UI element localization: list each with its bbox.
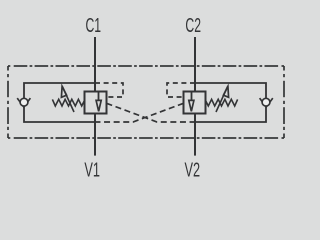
pilot loop (right, dashed)	[167, 83, 195, 97]
manifold boundary (dash-dot border)	[8, 66, 284, 138]
poppet arrow (right)	[189, 100, 194, 111]
valve body square (right counterbalance valve)	[184, 92, 206, 114]
wire C1 to valve top	[94, 37, 96, 92]
check valve seat (left)	[17, 98, 30, 107]
check valve ball (right)	[262, 98, 270, 106]
svg-text:V2: V2	[185, 159, 201, 182]
pilot loop (left, dashed)	[95, 83, 123, 97]
check valve ball (left)	[20, 98, 28, 106]
poppet arrow (left)	[96, 100, 101, 111]
svg-text:C2: C2	[185, 14, 201, 37]
poppet feed line (right)	[191, 92, 193, 101]
adjustment arrow head (right)	[223, 86, 228, 97]
cross pilot line right valve to V1 (dashed)	[99, 103, 184, 122]
bypass check line bottom (right)	[192, 106, 267, 122]
valve body square (left counterbalance valve)	[85, 92, 107, 114]
wire valve bottom to V2	[194, 114, 196, 156]
bypass check line top (left)	[24, 83, 95, 99]
adjustment arrow shaft (left)	[62, 87, 74, 112]
wire valve bottom to V1	[94, 114, 96, 156]
spring (right, adjustable)	[206, 99, 238, 106]
bypass check line bottom (left)	[24, 106, 99, 122]
poppet feed line (left)	[98, 92, 100, 101]
bypass check line top (right)	[195, 83, 266, 99]
adjustment arrow shaft (right)	[216, 87, 228, 112]
check valve seat (right)	[260, 98, 273, 107]
cross pilot line left valve to V2 (dashed)	[107, 103, 192, 122]
wire C2 to valve top	[194, 37, 196, 92]
svg-text:C1: C1	[86, 14, 102, 37]
svg-text:V1: V1	[84, 159, 100, 182]
adjustment arrow head (left)	[61, 86, 66, 97]
spring (left, adjustable)	[52, 99, 84, 106]
